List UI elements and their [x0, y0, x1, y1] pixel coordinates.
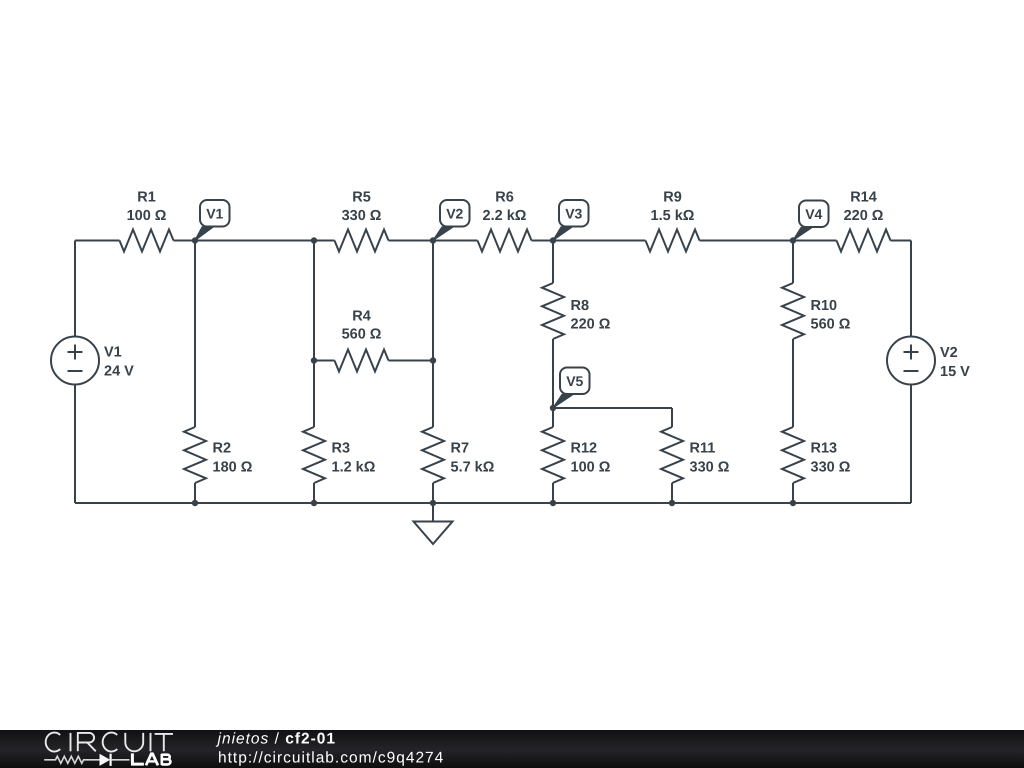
- junction node V5: [550, 405, 556, 411]
- logo letter C: [46, 733, 61, 752]
- wire R4 right lead: [389, 360, 434, 362]
- wire top rail right segment: [891, 240, 912, 242]
- junction node V1: [192, 237, 198, 243]
- svg-text:330 Ω: 330 Ω: [342, 208, 382, 224]
- wire node V5 to R11: [553, 407, 672, 409]
- svg-text:1.5 kΩ: 1.5 kΩ: [651, 208, 695, 224]
- svg-text:R5: R5: [352, 190, 371, 206]
- node label V5: [552, 368, 589, 409]
- svg-text:R1: R1: [137, 190, 156, 206]
- svg-text:R12: R12: [571, 441, 598, 457]
- svg-text:V1: V1: [206, 205, 223, 221]
- svg-text:15 V: 15 V: [940, 364, 970, 380]
- resistor R2: [184, 427, 206, 483]
- logo letter I2: [150, 733, 152, 751]
- svg-text:1.2 kΩ: 1.2 kΩ: [332, 460, 376, 476]
- junction R5 branch: [311, 237, 317, 243]
- svg-text:R10: R10: [811, 298, 838, 314]
- wire node V4 down to R10: [792, 241, 794, 284]
- resistor R11: [661, 427, 683, 483]
- wire R11 to bottom rail: [671, 483, 673, 503]
- node label V4: [792, 201, 828, 241]
- logo letter C2: [103, 733, 118, 752]
- footer bar: [0, 730, 1024, 768]
- wire R13 to bottom rail: [792, 483, 794, 503]
- wire right rail lower: [910, 385, 912, 504]
- wire left rail lower: [74, 385, 76, 504]
- wire top rail R9 to R14: [700, 240, 837, 242]
- node label V1: [194, 200, 229, 241]
- svg-text:330 Ω: 330 Ω: [811, 460, 851, 476]
- svg-text:http://circuitlab.com/c9q4274: http://circuitlab.com/c9q4274: [218, 749, 444, 766]
- junction bottom R3: [311, 500, 317, 506]
- svg-text:100 Ω: 100 Ω: [127, 208, 167, 224]
- junction bottom R13: [790, 500, 796, 506]
- svg-text:5.7 kΩ: 5.7 kΩ: [451, 460, 495, 476]
- wire right rail upper: [910, 241, 912, 337]
- junction bottom R12: [550, 500, 556, 506]
- wire bottom rail: [75, 502, 911, 504]
- svg-text:R3: R3: [332, 441, 351, 457]
- svg-text:R6: R6: [495, 190, 514, 206]
- logo text LAB: [131, 753, 170, 765]
- logo letter T: [155, 734, 173, 751]
- wire node V1 down to R2: [194, 241, 196, 428]
- svg-text:V1: V1: [104, 345, 122, 361]
- svg-text:24 V: 24 V: [104, 364, 134, 380]
- resistor R14: [837, 230, 891, 252]
- svg-text:R4: R4: [352, 309, 371, 325]
- logo letter U: [125, 733, 143, 751]
- resistor R12: [542, 427, 564, 483]
- svg-text:100 Ω: 100 Ω: [571, 460, 611, 476]
- wire R4 left lead: [314, 360, 335, 362]
- wire R2 to bottom rail: [194, 483, 196, 503]
- node label V2: [432, 200, 469, 241]
- junction bottom R11: [669, 500, 675, 506]
- voltage source V2: [887, 337, 935, 385]
- resistor R7: [422, 427, 444, 483]
- svg-text:330 Ω: 330 Ω: [690, 460, 730, 476]
- svg-text:220 Ω: 220 Ω: [571, 317, 611, 333]
- ground: [414, 503, 453, 544]
- resistor R9: [646, 230, 700, 252]
- wire node V2 down to R7: [432, 241, 434, 428]
- wire R3 to bottom rail: [313, 483, 315, 503]
- junction node V2: [430, 237, 436, 243]
- svg-text:R7: R7: [451, 441, 470, 457]
- junction bottom R2: [192, 500, 198, 506]
- logo letter R: [78, 733, 96, 751]
- wire node V3 down to R8: [552, 241, 554, 284]
- svg-text:R14: R14: [850, 190, 877, 206]
- svg-text:V2: V2: [940, 345, 958, 361]
- wire R7 to bottom rail: [432, 483, 434, 503]
- resistor R1: [120, 230, 174, 252]
- wire top rail V1-node to R5: [174, 240, 335, 242]
- svg-text:220 Ω: 220 Ω: [844, 208, 884, 224]
- wire R12 to bottom rail: [552, 483, 554, 503]
- wire top rail R5 to R6: [389, 240, 478, 242]
- svg-text:2.2 kΩ: 2.2 kΩ: [483, 208, 527, 224]
- svg-text:R13: R13: [811, 441, 838, 457]
- svg-text:V5: V5: [566, 373, 583, 389]
- node label V3: [552, 200, 588, 241]
- resistor R6: [478, 230, 532, 252]
- svg-text:R8: R8: [571, 298, 590, 314]
- logo letter I: [70, 733, 72, 751]
- svg-text:jnietos / cf2-01: jnietos / cf2-01: [216, 731, 337, 748]
- voltage source V1: [51, 337, 99, 385]
- junction R4 left: [311, 357, 317, 363]
- svg-text:V4: V4: [805, 206, 822, 222]
- resistor R13: [782, 427, 804, 483]
- junction node V3: [550, 237, 556, 243]
- junction node V4: [790, 237, 796, 243]
- svg-text:560 Ω: 560 Ω: [342, 327, 382, 343]
- svg-text:R2: R2: [213, 441, 232, 457]
- resistor R4: [335, 350, 389, 372]
- wire R10 to R13: [792, 339, 794, 427]
- resistor R8: [542, 283, 564, 339]
- resistor R3: [303, 427, 325, 483]
- wire junction down to R3: [313, 241, 315, 428]
- wire R8 to node V5: [552, 339, 554, 427]
- junction bottom ground: [430, 500, 436, 506]
- resistor R10: [782, 283, 804, 339]
- resistor R5: [335, 230, 389, 252]
- wire R11 top lead: [671, 408, 673, 427]
- svg-text:V2: V2: [446, 205, 463, 221]
- wire top rail R6 to R9: [532, 240, 646, 242]
- svg-text:560 Ω: 560 Ω: [811, 317, 851, 333]
- junction R4 right: [430, 357, 436, 363]
- logo wire with resistor: [44, 756, 100, 763]
- wire left rail upper: [74, 241, 76, 337]
- logo diode: [100, 754, 130, 766]
- svg-text:180 Ω: 180 Ω: [213, 460, 253, 476]
- wire top rail left segment: [75, 240, 120, 242]
- svg-text:R11: R11: [690, 441, 716, 457]
- svg-text:R9: R9: [663, 190, 682, 206]
- svg-text:V3: V3: [565, 205, 582, 221]
